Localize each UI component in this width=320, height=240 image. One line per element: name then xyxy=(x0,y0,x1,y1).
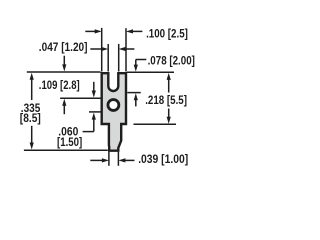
svg-text:.047 [1.20]: .047 [1.20] xyxy=(39,40,88,54)
dim .100 left line xyxy=(85,30,95,32)
arrowhead .335 upper (points up at y=72.0) xyxy=(30,73,34,80)
leader .078 vertical xyxy=(135,60,137,66)
arrowhead .047 right (points left at x=118.7) xyxy=(119,47,126,51)
arrowhead .078 upper (points down at y=72.2) xyxy=(134,65,138,72)
leader .078 horizontal xyxy=(136,59,147,61)
ext line: hole bottom tangent, left xyxy=(89,111,101,113)
ext line: hole top tangent, left xyxy=(60,97,100,99)
arrowhead .218 upper (points up at y=72.2) xyxy=(167,73,171,80)
arrowhead .100 right (points left at x=126.0) xyxy=(126,29,133,33)
arrowhead .109 lower (points up at y=97.6) xyxy=(62,99,66,106)
arrowhead .039 left (points right at x=108.9) xyxy=(102,158,109,162)
dim .078 lower arrow tail xyxy=(135,100,137,106)
leader .060 horizontal xyxy=(83,131,94,133)
svg-text:.218 [5.5]: .218 [5.5] xyxy=(145,93,187,107)
svg-text:[1.50]: [1.50] xyxy=(57,135,82,149)
ext line: prong-top level, left span xyxy=(27,71,101,73)
arrowhead .109 upper (points down at y=72.0) xyxy=(62,64,66,71)
arrowhead .218 lower (points down at y=124.3) xyxy=(167,117,171,124)
hole in component body xyxy=(108,100,119,111)
ext line: pin tip right edge, below xyxy=(117,152,119,166)
dim .060 upper arrow tail xyxy=(93,82,95,91)
svg-text:.039 [1.00]: .039 [1.00] xyxy=(138,152,188,166)
dim .218 lower segment xyxy=(168,109,170,119)
dim .335 lower segment xyxy=(31,126,33,144)
arrowhead .100 left (points right at x=101.7) xyxy=(95,29,102,33)
dim .039 right line xyxy=(125,159,135,161)
dim .335 upper segment xyxy=(31,78,33,100)
svg-text:.100 [2.5]: .100 [2.5] xyxy=(146,26,188,40)
arrowhead .078 lower (points up at y=92.8) xyxy=(134,93,138,100)
dim .109 upper tail xyxy=(63,56,65,66)
arrowhead .047 left (points right at x=108.2) xyxy=(101,47,108,51)
ext line: slot web bottom, right xyxy=(127,92,140,94)
svg-text:.078 [2.00]: .078 [2.00] xyxy=(148,53,195,67)
svg-text:.109 [2.8]: .109 [2.8] xyxy=(39,78,80,92)
dim .100 right line xyxy=(132,30,143,32)
dim .218 upper segment xyxy=(168,78,170,92)
arrowhead .060 upper (points down at y=97.6) xyxy=(92,91,96,98)
dim .060 lower arrow tail xyxy=(93,119,95,131)
ext line: right prong outer edge, above xyxy=(125,28,127,71)
arrowhead .335 lower (points down at y=150.2) xyxy=(30,143,34,150)
ext line: pin tip level, left span xyxy=(24,149,108,151)
ext line: pin tip left edge, below xyxy=(108,152,110,166)
ext line: prong-top level, right span xyxy=(127,71,174,73)
arrowhead .039 right (points left at x=118.4) xyxy=(118,158,125,162)
dim .047 right line xyxy=(125,48,135,50)
ext line: right prong inner (slot) edge, above xyxy=(118,44,120,72)
component body: forked flat terminal pin, gray fill xyxy=(102,73,126,151)
dim .047 left line xyxy=(90,48,102,50)
ext line: left prong outer edge, above xyxy=(101,28,103,72)
arrowhead .060 lower (points up at y=111.2) xyxy=(92,113,96,120)
dim .039 left line xyxy=(90,159,102,161)
ext line: left prong inner (slot) edge, above xyxy=(107,44,109,72)
ext line: shoulder bottom level, right xyxy=(134,123,177,125)
svg-text:[8.5]: [8.5] xyxy=(20,111,41,125)
dim .109 lower tail xyxy=(63,105,65,115)
